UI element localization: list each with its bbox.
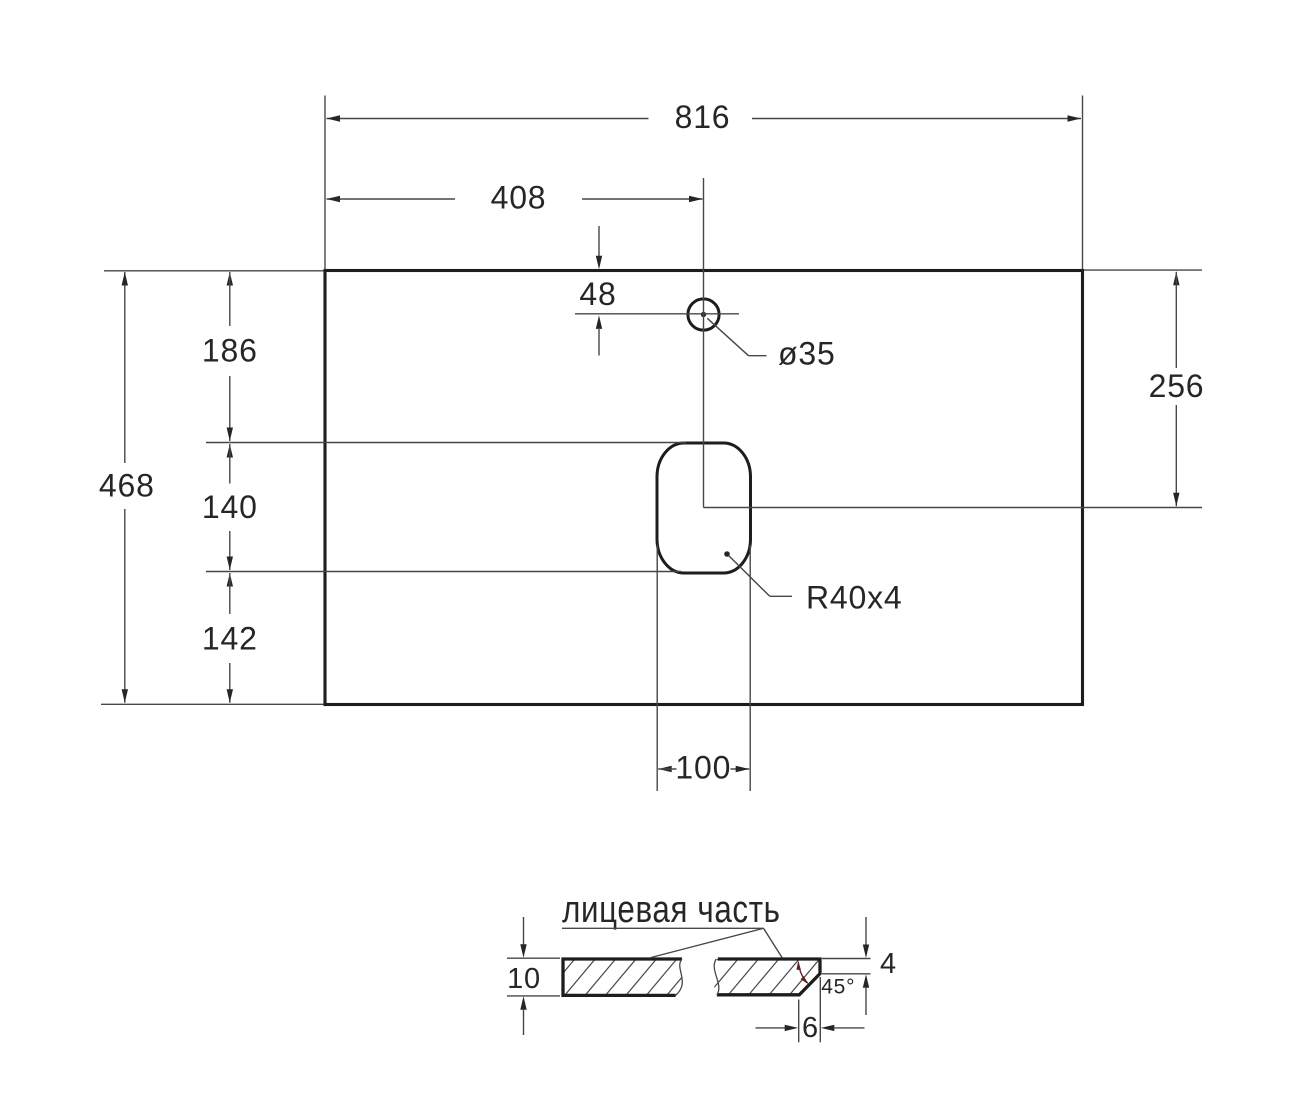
svg-text:816: 816 xyxy=(675,99,731,135)
svg-text:6: 6 xyxy=(802,1012,819,1044)
svg-text:408: 408 xyxy=(491,180,547,216)
svg-text:140: 140 xyxy=(202,489,258,525)
svg-text:468: 468 xyxy=(99,468,155,504)
svg-text:45°: 45° xyxy=(821,976,855,999)
svg-text:100: 100 xyxy=(675,749,731,785)
svg-text:256: 256 xyxy=(1149,368,1205,404)
svg-text:48: 48 xyxy=(579,276,616,312)
svg-text:10: 10 xyxy=(507,963,541,995)
svg-text:ø35: ø35 xyxy=(778,336,836,372)
svg-text:142: 142 xyxy=(202,620,258,656)
svg-text:лицевая часть: лицевая часть xyxy=(562,889,781,931)
svg-text:4: 4 xyxy=(880,948,897,980)
svg-text:R40x4: R40x4 xyxy=(806,579,903,615)
svg-text:186: 186 xyxy=(202,333,258,369)
